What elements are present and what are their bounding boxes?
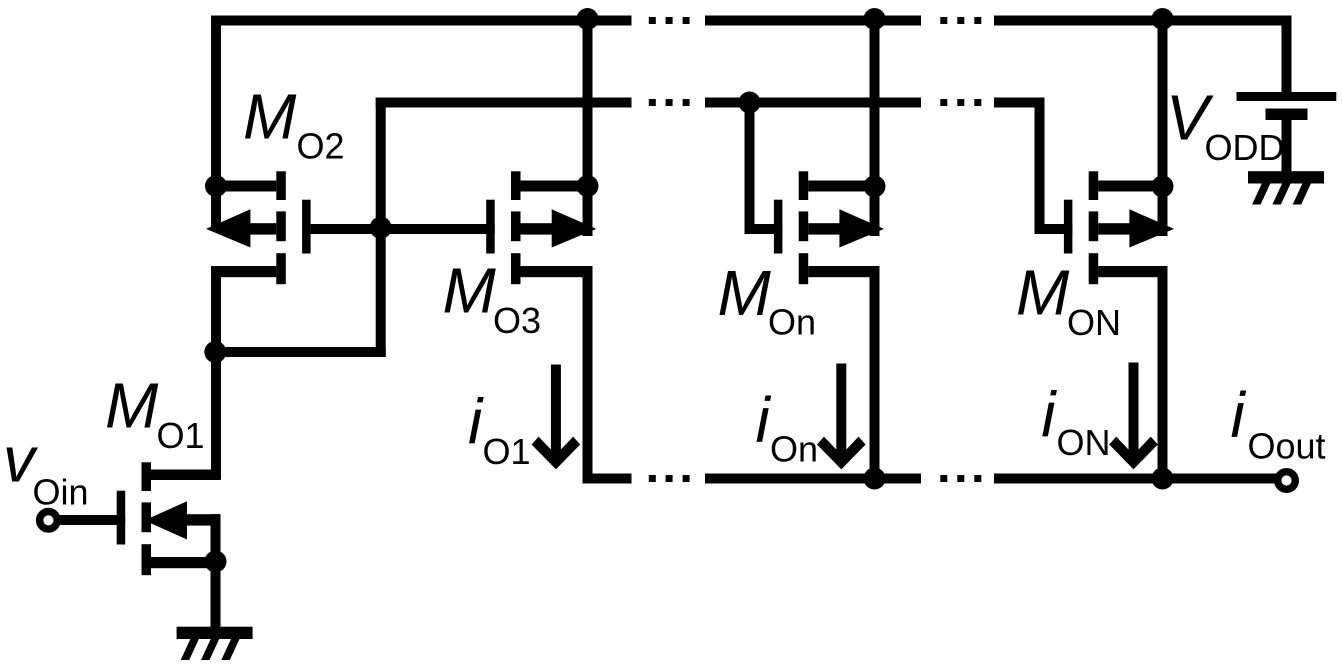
label M_On xyxy=(718,257,817,343)
transistor M_O2 xyxy=(206,171,381,284)
junction dot: top rail / M_ON column xyxy=(1152,8,1174,30)
junction dot: M_ON drain xyxy=(1152,175,1174,197)
junction dot: output rail / M_On source xyxy=(864,468,886,490)
svg-text:M: M xyxy=(1016,257,1070,329)
transistor M_O1 xyxy=(58,462,221,575)
svg-text:On: On xyxy=(770,429,818,470)
svg-text:Oout: Oout xyxy=(1248,426,1326,467)
terminal: v_Oin input circle xyxy=(40,512,58,530)
svg-text:ON: ON xyxy=(1067,302,1121,343)
label M_O3 xyxy=(443,255,542,341)
wire: gate bus rail xyxy=(376,98,1045,108)
label i_Oout xyxy=(1231,379,1326,467)
svg-text:i: i xyxy=(1231,379,1247,451)
battery V_ODD: short plate xyxy=(1266,109,1308,121)
wire: top supply rail xyxy=(211,16,1292,26)
junction dot: left column / gate connector xyxy=(204,341,226,363)
wire: left column lower (M_O2 source to M_O1 drain) xyxy=(211,266,221,480)
svg-text:M: M xyxy=(243,80,297,152)
label M_O1 xyxy=(105,370,205,456)
wire: output rail xyxy=(583,474,1278,484)
svg-text:ODD: ODD xyxy=(1205,127,1285,168)
wire: M_O3 source drop to output rail xyxy=(583,266,593,484)
junction dot: gate of M_O2/M_O3 xyxy=(370,217,392,239)
ground: M_O1 source xyxy=(177,627,253,660)
wire: M_O1 bulk/source column to ground xyxy=(211,514,221,627)
label M_ON xyxy=(1016,257,1121,344)
wire: gate drop for M_O2/M_O3 from gate bus xyxy=(376,98,386,358)
ellipsis: gate rail break 2 xyxy=(940,99,981,106)
label i_O1 xyxy=(468,386,531,472)
junction dot: M_O1 source/bulk xyxy=(205,551,227,573)
ellipsis: gate rail break 1 xyxy=(649,99,690,106)
ellipsis: output rail break 2 xyxy=(940,475,981,482)
terminal: i_Oout output circle xyxy=(1278,472,1296,490)
label i_On xyxy=(756,384,819,470)
svg-text:M: M xyxy=(105,370,159,442)
label v_Oin xyxy=(3,423,89,512)
junction dot: output rail / M_ON source xyxy=(1152,468,1174,490)
wire: M_On drain column from top rail xyxy=(870,16,880,237)
ellipsis: top rail break 1 xyxy=(649,17,690,24)
svg-text:O1: O1 xyxy=(157,415,205,456)
label M_O2 xyxy=(243,80,345,166)
svg-text:M: M xyxy=(718,257,772,329)
battery V_ODD: long plate xyxy=(1237,92,1337,101)
current arrow i_On xyxy=(817,364,866,470)
junction dot: M_O2 drain xyxy=(205,175,227,197)
ground: battery negative xyxy=(1248,171,1324,204)
label V_ODD xyxy=(1166,82,1285,169)
transistor M_O3 xyxy=(381,171,597,284)
svg-text:M: M xyxy=(443,255,497,327)
svg-text:On: On xyxy=(768,302,816,343)
junction dot: top rail / M_O3 column xyxy=(577,8,599,30)
current arrow i_O1 xyxy=(532,365,581,470)
svg-text:O3: O3 xyxy=(493,300,541,341)
wire: M_On gate drop from gate bus xyxy=(745,103,755,235)
transistor M_ON xyxy=(1040,171,1175,284)
wire: M_ON drain column from top rail xyxy=(1158,16,1168,237)
label i_ON xyxy=(1041,379,1110,464)
wire: left column upper (top rail to M_O2 drain and bulk) xyxy=(211,16,221,232)
svg-text:Oin: Oin xyxy=(33,471,89,512)
current arrow i_ON xyxy=(1109,363,1158,470)
wire: M_O3 drain column from top rail xyxy=(583,16,593,237)
junction dot: gate bus / M_On gate xyxy=(739,92,761,114)
ellipsis: output rail break 1 xyxy=(649,475,690,482)
svg-text:i: i xyxy=(1041,379,1057,451)
svg-text:ON: ON xyxy=(1057,422,1111,463)
svg-text:O1: O1 xyxy=(483,431,531,472)
wire: connector from gate drop to left column xyxy=(211,347,386,357)
transistor M_On xyxy=(750,171,885,284)
wire: M_ON gate drop from gate bus end xyxy=(1035,103,1045,235)
wire: M_On source drop to output rail xyxy=(870,266,880,484)
svg-text:O2: O2 xyxy=(297,126,345,167)
ellipsis: top rail break 2 xyxy=(940,17,981,24)
junction dot: M_O3 drain xyxy=(577,175,599,197)
junction dot: top rail / M_On column xyxy=(864,8,886,30)
junction dot: M_On drain xyxy=(864,175,886,197)
wire: M_ON source drop to output rail xyxy=(1158,266,1168,484)
wire: battery to ground xyxy=(1282,120,1292,172)
wire: top rail corner down to battery xyxy=(1282,16,1292,93)
